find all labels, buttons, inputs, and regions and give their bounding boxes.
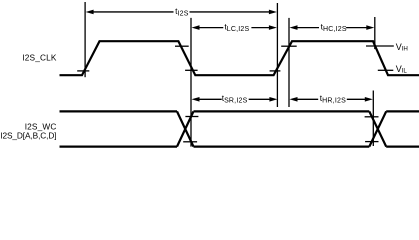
- dimension tHC,I2S arrow right: [346, 25, 374, 30]
- dimension tHR,I2S arrow right: [347, 97, 373, 102]
- wire data bus bottom rail: [60, 146, 419, 148]
- node tick rising edge1 VIL: [77, 70, 89, 72]
- svg-text:I2S_CLK: I2S_CLK: [22, 52, 57, 62]
- wire data bus crossover 1: [177, 111, 194, 146]
- node tick crossover1 upper: [185, 116, 198, 118]
- wire measurement vertical V5 at data transition2: [372, 91, 374, 147]
- dimension tHR,I2S arrow left: [290, 97, 319, 102]
- dimension tSR,I2S arrow right: [249, 97, 278, 102]
- dimension tLC,I2S arrow left: [192, 25, 224, 30]
- node VIL reference line at falling edge2: [378, 69, 394, 71]
- node tick falling edge1 VIL: [185, 69, 198, 71]
- dimension tLC,I2S arrow right: [251, 25, 277, 30]
- node tick rising edge2 VIL: [270, 70, 281, 72]
- wire I2S_CLK waveform: [60, 41, 419, 75]
- node tick falling edge1 VIH: [175, 45, 189, 47]
- dimension tI2S arrow left: [86, 10, 174, 15]
- wire measurement vertical V2 at second rising edge VIL: [276, 3, 278, 107]
- dimension tI2S arrow right: [190, 10, 277, 15]
- dimension tHC,I2S arrow left: [290, 25, 320, 30]
- node tick crossover2 lower: [365, 141, 378, 143]
- node tick rising edge2 VIH: [281, 45, 297, 47]
- node tick crossover1 lower: [183, 141, 197, 143]
- node VIH reference line at falling edge2: [366, 45, 394, 47]
- node tick crossover2 upper: [365, 116, 379, 118]
- wire measurement vertical V6 at falling edge2 VIH: [374, 17, 376, 49]
- wire measurement vertical V4 at falling edge1 / data transition1: [190, 18, 192, 147]
- dimension tSR,I2S arrow left: [192, 97, 222, 102]
- wire measurement vertical V3 at second rising edge VIH: [288, 18, 290, 107]
- svg-text:I2S_D[A,B,C,D]: I2S_D[A,B,C,D]: [0, 131, 56, 141]
- wire data bus crossover 2: [369, 111, 386, 146]
- wire data bus top rail: [60, 110, 419, 112]
- wire measurement vertical V1 at first rising edge: [84, 2, 86, 77]
